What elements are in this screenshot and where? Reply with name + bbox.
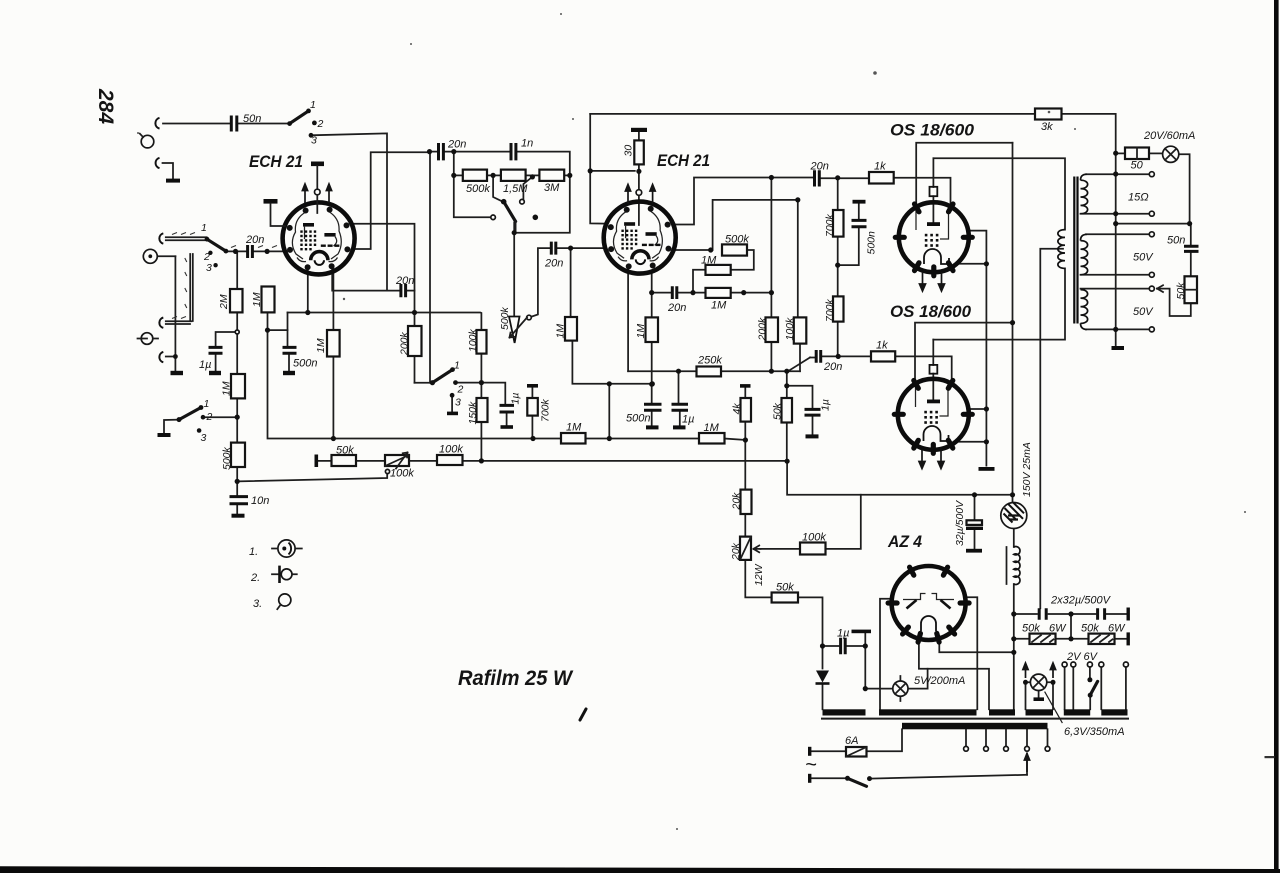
svg-text:3: 3 [201, 432, 207, 444]
svg-text:50k: 50k [1022, 623, 1040, 635]
svg-text:1µ: 1µ [682, 414, 694, 426]
svg-text:100k: 100k [467, 328, 479, 352]
svg-text:1,5M: 1,5M [503, 183, 528, 195]
svg-text:1n: 1n [521, 138, 533, 150]
svg-text:200k: 200k [399, 331, 411, 356]
svg-text:500k: 500k [499, 306, 511, 330]
svg-text:1: 1 [201, 222, 207, 234]
svg-text:1: 1 [310, 99, 316, 111]
svg-text:20n: 20n [823, 361, 842, 373]
svg-text:12W: 12W [753, 563, 765, 586]
svg-text:2x32µ/500V: 2x32µ/500V [1050, 595, 1112, 607]
svg-text:20n: 20n [447, 139, 466, 151]
svg-text:1µ: 1µ [837, 628, 849, 640]
svg-text:284: 284 [94, 88, 117, 124]
svg-text:700k: 700k [540, 398, 552, 422]
svg-text:1M: 1M [701, 255, 717, 267]
svg-text:3k: 3k [1041, 121, 1053, 133]
svg-text:500k: 500k [466, 183, 490, 195]
svg-text:ECH 21: ECH 21 [249, 152, 303, 171]
svg-text:1k: 1k [874, 161, 886, 173]
svg-text:50: 50 [1131, 160, 1144, 172]
svg-text:6,3V/350mA: 6,3V/350mA [1064, 726, 1125, 738]
svg-text:1M: 1M [711, 300, 727, 312]
svg-text:1M: 1M [221, 381, 233, 396]
svg-text:20n: 20n [810, 161, 829, 173]
svg-text:100k: 100k [439, 444, 463, 456]
svg-text:50V: 50V [1133, 252, 1154, 264]
svg-text:3: 3 [455, 397, 461, 409]
svg-text:1M: 1M [635, 324, 647, 339]
svg-text:50n: 50n [243, 113, 261, 125]
svg-text:500n: 500n [866, 231, 878, 255]
svg-text:250k: 250k [697, 355, 722, 367]
svg-text:10n: 10n [251, 495, 269, 507]
svg-text:20k: 20k [730, 542, 742, 561]
svg-text:500n: 500n [293, 358, 317, 370]
svg-text:500k: 500k [221, 446, 233, 470]
svg-text:AZ 4: AZ 4 [887, 532, 922, 551]
svg-text:ECH 21: ECH 21 [657, 151, 710, 170]
svg-text:100k: 100k [390, 468, 414, 480]
svg-text:2V 6V: 2V 6V [1066, 651, 1099, 663]
svg-text:150V 25mA: 150V 25mA [1021, 442, 1033, 497]
svg-text:1M: 1M [566, 422, 582, 434]
svg-text:3.: 3. [253, 598, 262, 610]
svg-text:5V/200mA: 5V/200mA [914, 675, 965, 687]
svg-text:2: 2 [317, 118, 324, 130]
svg-text:50n: 50n [1167, 235, 1185, 247]
svg-text:50V: 50V [1133, 306, 1154, 318]
svg-text:500n: 500n [626, 413, 650, 425]
svg-text:OS 18/600: OS 18/600 [890, 121, 975, 140]
svg-text:700k: 700k [824, 298, 836, 322]
svg-text:50k: 50k [776, 582, 794, 594]
svg-text:50k: 50k [1081, 623, 1099, 635]
svg-text:20k: 20k [731, 492, 743, 511]
svg-text:30: 30 [623, 145, 635, 157]
svg-text:100k: 100k [784, 317, 796, 341]
svg-text:20n: 20n [395, 275, 414, 287]
svg-text:1: 1 [454, 360, 460, 372]
svg-text:1: 1 [204, 398, 210, 410]
svg-text:150k: 150k [467, 401, 479, 425]
svg-text:1µ: 1µ [510, 393, 522, 405]
svg-text:1M: 1M [315, 338, 327, 353]
svg-text:200k: 200k [757, 317, 769, 342]
svg-text:1M: 1M [555, 324, 567, 339]
svg-text:2: 2 [457, 384, 464, 396]
svg-text:OS 18/600: OS 18/600 [890, 302, 972, 321]
svg-text:50k: 50k [336, 445, 354, 457]
svg-text:1.: 1. [249, 546, 258, 558]
svg-text:700k: 700k [824, 213, 836, 237]
svg-text:6W: 6W [1049, 623, 1067, 635]
svg-text:~: ~ [805, 754, 817, 776]
svg-text:3M: 3M [544, 182, 560, 194]
svg-text:2M: 2M [218, 294, 230, 310]
svg-text:1M: 1M [704, 422, 720, 434]
svg-text:4k: 4k [731, 403, 743, 415]
svg-text:32µ/500V: 32µ/500V [954, 500, 966, 546]
svg-text:20n: 20n [667, 302, 686, 314]
svg-text:500k: 500k [725, 234, 749, 246]
svg-text:1µ: 1µ [199, 359, 211, 371]
svg-text:20V/60mA: 20V/60mA [1143, 130, 1195, 142]
svg-text:2.: 2. [250, 572, 260, 584]
svg-text:Rafilm 25 W: Rafilm 25 W [458, 667, 574, 690]
svg-text:1M: 1M [251, 292, 263, 307]
svg-text:3: 3 [206, 262, 212, 274]
svg-text:20n: 20n [544, 258, 563, 270]
svg-text:1µ: 1µ [820, 399, 832, 411]
svg-text:100k: 100k [802, 532, 826, 544]
svg-text:2: 2 [206, 411, 213, 423]
svg-text:6A: 6A [845, 735, 858, 747]
svg-text:6W: 6W [1108, 623, 1126, 635]
svg-text:3: 3 [311, 135, 317, 147]
svg-text:15Ω: 15Ω [1128, 192, 1149, 204]
svg-text:50k: 50k [772, 402, 784, 420]
svg-text:50k: 50k [1175, 282, 1187, 300]
svg-text:1k: 1k [876, 340, 888, 352]
svg-text:20n: 20n [245, 234, 264, 246]
